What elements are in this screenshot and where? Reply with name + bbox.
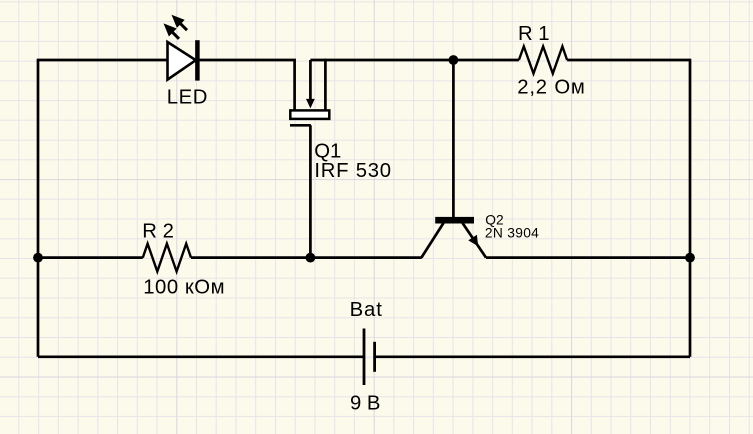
wire R2 to node B to Q2 collector [191, 256, 422, 259]
wire Q2 emitter to right rail [486, 256, 690, 259]
wire mid row: rail to R2 [38, 256, 143, 259]
wire left rail [37, 60, 40, 357]
wire R1 right to right rail [567, 59, 690, 62]
svg-text:IRF 530: IRF 530 [314, 160, 391, 182]
Q1 body/substrate leg with arrow [309, 60, 312, 100]
wire right rail [689, 59, 692, 357]
svg-text:9 В: 9 В [350, 392, 380, 414]
battery long plate [363, 329, 366, 386]
wire bottom rail right (battery minus to right rail) [375, 355, 690, 358]
svg-text:LED: LED [167, 86, 208, 108]
Q1 channel body [290, 110, 329, 119]
resistor R2 [142, 221, 225, 299]
mosfet Q1 IRF 530 [290, 59, 392, 258]
wire LED cathode to Q1 drain leg [199, 60, 295, 110]
wire top-left (rail to LED anode) [37, 59, 168, 62]
svg-text:R 1: R 1 [518, 23, 550, 45]
LED light arrow 2 [164, 23, 180, 38]
transistor Q2 2N 3904 [421, 60, 539, 258]
node dot left rail / R2 [33, 253, 43, 263]
wire Q1 source to node A and R1 [310, 59, 519, 62]
LED cathode bar [195, 40, 200, 80]
svg-text:2N 3904: 2N 3904 [485, 225, 539, 240]
node dot right rail / emitter [685, 253, 695, 263]
LED triangle (anode) [168, 42, 196, 80]
Q1 gate lead [309, 125, 312, 257]
wire bottom rail left (to battery plus) [38, 355, 364, 358]
LED light arrow 1 [172, 15, 188, 30]
node B dot (R2 / Q1 gate / Q2 collector) [306, 253, 316, 263]
Q2 emitter arrow [468, 235, 478, 247]
Q1 source leg [324, 59, 327, 110]
Q2 collector [421, 223, 443, 258]
svg-text:R 2: R 2 [142, 221, 174, 243]
Q2 base bar [435, 217, 474, 224]
svg-text:100 кОм: 100 кОм [143, 276, 225, 298]
svg-text:2,2 Ом: 2,2 Ом [517, 77, 585, 99]
resistor R1 [517, 23, 585, 99]
svg-text:Bat: Bat [350, 299, 383, 321]
Q2 base lead [452, 60, 455, 217]
battery Bat [350, 299, 383, 415]
Q2 emitter [463, 223, 487, 258]
node A dot (Q1 source / R1 / Q2 base) [449, 55, 459, 65]
Q1 gate plate [290, 124, 311, 127]
LED D1 [164, 15, 209, 109]
battery short plate [373, 342, 376, 372]
